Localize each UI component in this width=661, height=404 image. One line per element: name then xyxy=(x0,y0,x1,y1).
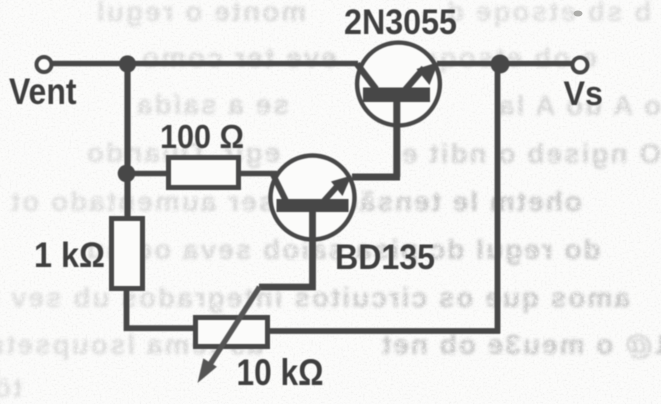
svg-text:10 kΩ: 10 kΩ xyxy=(237,352,324,393)
svg-text:Vent: Vent xyxy=(9,71,77,112)
junction node at output xyxy=(491,55,510,74)
wire top rail right (2N3055 emitter to Vs) xyxy=(437,61,572,67)
faint bleed-through background text (mirrored scan artifacts) xyxy=(95,0,306,28)
junction node at 100 ohm tap xyxy=(118,165,136,183)
wire bottom left (1k bottom to pot) xyxy=(127,288,196,328)
wire 100 ohm to BD135 base xyxy=(239,171,277,177)
svg-text:1 kΩ: 1 kΩ xyxy=(34,236,105,275)
wire junction to 100 ohm resistor xyxy=(127,171,168,177)
svg-text:Vs: Vs xyxy=(564,75,604,113)
svg-text:100 Ω: 100 Ω xyxy=(160,119,244,156)
svg-text:BD135: BD135 xyxy=(335,238,435,277)
resistor R1 100 ohm xyxy=(169,158,239,188)
wire top rail left (Vent to 2N3055 collector) xyxy=(52,61,358,67)
junction node at input/divider top xyxy=(119,55,136,72)
terminal Vent xyxy=(37,57,52,72)
wire bottom right (pot to output vertical) xyxy=(268,328,500,334)
potentiometer wiper arrow xyxy=(209,287,260,366)
svg-text:2N3055: 2N3055 xyxy=(344,3,457,42)
wire output vertical (Vs node down) xyxy=(495,64,501,334)
wire left vertical bus xyxy=(124,64,130,217)
terminal Vs xyxy=(573,58,588,73)
wire Q2 center lead down and left to pot wiper xyxy=(259,210,313,287)
wire Q1 base lead down and left to Q2 xyxy=(352,100,400,177)
potentiometer P1 10 kohm body xyxy=(196,318,268,347)
transistor Q2 BD135 (NPN, base left, arrow lead to upper right) xyxy=(271,156,355,240)
resistor R2 1 kohm xyxy=(112,219,143,289)
transistor Q1 2N3055 (NPN, collector left, emitter right with arrow, base bar) xyxy=(357,43,440,126)
